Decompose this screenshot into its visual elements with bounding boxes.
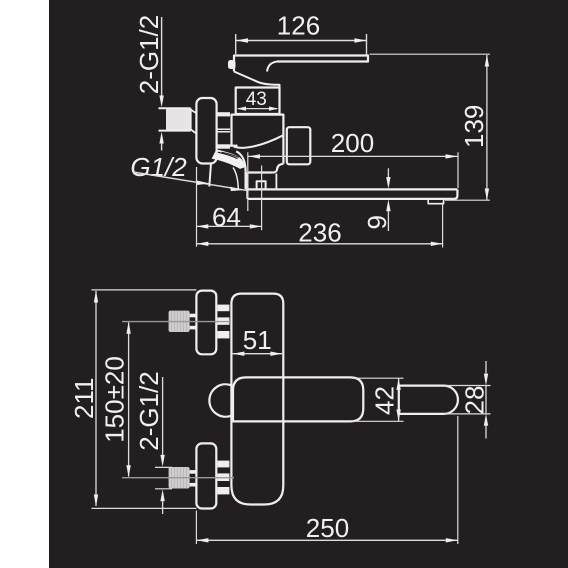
dimension 64 arrow left <box>197 224 209 228</box>
hex nut top facet (filled) <box>217 112 230 116</box>
handle front lip (filled) <box>228 60 236 69</box>
inlet fitting right edge <box>190 108 192 130</box>
dimension 42 extension bottom <box>352 420 404 422</box>
spout root white band (filled) <box>212 149 245 169</box>
upper inlet knurled knob <box>169 311 190 332</box>
dimension 43 arrow left <box>237 107 246 111</box>
lower inlet knurled knob <box>169 467 190 489</box>
dimension 126 extension left <box>235 34 237 54</box>
spout bottom edge and tip <box>247 189 457 199</box>
dimension 51 arrow right <box>270 352 282 356</box>
dimension 126 arrow left <box>236 38 248 43</box>
handle base cover <box>234 72 280 88</box>
lower wall escutcheon (front view) <box>196 443 216 508</box>
spout root outer bend <box>236 151 245 189</box>
dimension 236 line <box>197 243 443 245</box>
dimension 42 extension top <box>352 377 404 379</box>
body duct sculpt curve <box>234 135 284 148</box>
lower port thread tick bottom <box>155 488 172 490</box>
svg-text:43: 43 <box>246 89 267 110</box>
inlet flare top <box>191 110 197 114</box>
spout bracket top edge <box>247 171 272 173</box>
spout bracket left edge <box>246 173 248 199</box>
spout root tube inner edge <box>233 168 238 189</box>
dimension 2-G1/2 leader line <box>161 17 163 96</box>
svg-text:42: 42 <box>370 386 400 415</box>
handle bar (front view) <box>233 377 363 421</box>
dimension 2-G1/2 line (front view) <box>162 377 164 455</box>
dimension 200 line <box>248 155 457 157</box>
dimension 42 line <box>398 378 400 421</box>
dimension 9 arrow up <box>386 199 390 211</box>
spout top edge <box>247 188 457 190</box>
dimension 211 extension bottom <box>92 507 197 509</box>
mixer body (side view) <box>232 115 284 164</box>
dimension 28 extension top <box>444 385 491 387</box>
dimension 28 line lower <box>485 426 487 439</box>
G1/2 leader arrow 1 <box>196 180 209 185</box>
handle grip pill <box>399 386 458 414</box>
dimension 9 lower line <box>387 211 389 231</box>
dimension 2-G1/2 arrow up (front view) <box>160 489 164 501</box>
dimension 2-G1/2 arrow down <box>159 96 163 108</box>
svg-text:139: 139 <box>459 105 489 148</box>
upper wall escutcheon (front view) <box>196 291 216 355</box>
G1/2 leader line <box>133 172 248 191</box>
handle lever blade (side view) <box>234 56 368 72</box>
dimension 139 extension top <box>370 53 490 55</box>
spout root band streak 1 <box>218 152 238 158</box>
body bottom ledge <box>230 145 238 147</box>
svg-text:9: 9 <box>362 215 392 229</box>
cartridge housing box (43) <box>236 88 280 115</box>
dimension 42 arrow up <box>396 378 400 390</box>
inlet flare bottom <box>191 129 197 133</box>
dimension 200 extension right <box>457 152 459 188</box>
aerator insert <box>428 199 443 204</box>
svg-text:126: 126 <box>277 11 320 41</box>
dimension 211 arrow down <box>94 495 98 507</box>
dimension 200 arrow left <box>248 154 260 158</box>
dimension 250 extension right <box>457 416 459 544</box>
dimension 126 line <box>236 40 367 42</box>
dimension 250 extension left <box>195 511 197 545</box>
dimension 150±20 arrow down <box>126 465 130 477</box>
G1/2 leader arrow 2 <box>230 187 243 192</box>
dimension 2-G1/2 tail (front view) <box>162 501 164 514</box>
mixer body (front view) <box>231 294 283 505</box>
dimension 64 extension right <box>261 166 263 231</box>
dimension 51 line <box>233 353 283 355</box>
dimension 150±20 arrow up <box>126 322 130 334</box>
inlet fitting top edge / tick <box>159 107 191 109</box>
svg-text:250: 250 <box>306 513 349 543</box>
dimension 236 arrow right <box>431 242 443 246</box>
spout mounting notch <box>257 181 266 189</box>
dimension 250 arrow right <box>446 538 458 542</box>
dimension 139 arrow up <box>485 55 489 67</box>
svg-text:200: 200 <box>331 128 374 158</box>
dimension 139 arrow down <box>485 189 489 201</box>
wall escutcheon (side view) <box>196 98 216 164</box>
dimension 200 extension left <box>247 152 249 211</box>
hex nut bottom facet (filled) <box>217 144 230 148</box>
dimension 51 arrow left <box>233 352 245 356</box>
dimension 42 arrow down <box>396 410 400 422</box>
spout root band streak 2 <box>222 152 239 157</box>
svg-text:211: 211 <box>69 378 99 419</box>
dimension 250 arrow left <box>197 538 209 542</box>
upper knob collar <box>190 314 198 318</box>
dimension 150±20 line <box>128 323 130 477</box>
svg-text:236: 236 <box>298 218 341 248</box>
svg-text:150±20: 150±20 <box>100 356 130 443</box>
lower nipple ribs (filled) <box>217 461 229 468</box>
dimension 2-G1/2 arrow down (front view) <box>160 455 164 467</box>
inlet fitting bottom edge / tick <box>159 130 191 132</box>
dimension 250 line <box>197 539 458 541</box>
spout bracket divider <box>275 174 277 189</box>
outlet check-valve block <box>287 127 311 164</box>
dimension 126 extension right <box>366 34 368 55</box>
body foot S-curve <box>273 164 284 173</box>
dimension 64/236 extension left (wall plane) <box>196 167 198 247</box>
dimension 9 upper line <box>387 168 389 177</box>
lower port thread tick top <box>155 466 172 468</box>
upper nipple ribs (filled) <box>217 305 229 312</box>
dimension 28 arrow up <box>484 414 488 426</box>
dimension 28 arrow down <box>484 374 488 386</box>
handle finger hook curve <box>267 62 277 72</box>
dimension 28 mid line <box>485 386 487 414</box>
dimension 2-G1/2 arrow up <box>159 132 163 144</box>
dimension 43 line <box>238 108 277 110</box>
svg-text:2-G1/2: 2-G1/2 <box>134 15 164 95</box>
lower port centerline <box>122 477 234 479</box>
dimension 2-G1/2 lower tail <box>161 144 163 151</box>
dimension 139 extension bottom <box>445 199 490 201</box>
dimension 28 line upper <box>485 361 487 374</box>
dimension 211 arrow up <box>94 291 98 303</box>
dimension 200 arrow right <box>446 154 458 158</box>
dimension 139 line <box>486 55 488 200</box>
dimension 28 extension bottom <box>444 413 491 415</box>
svg-text:G1/2: G1/2 <box>130 152 187 182</box>
svg-text:64: 64 <box>212 202 241 232</box>
upper port centerline <box>122 321 231 323</box>
svg-text:2-G1/2: 2-G1/2 <box>134 371 164 451</box>
dimension 64 line <box>197 225 262 227</box>
lower knob collar <box>190 470 198 474</box>
dimension 64 arrow right <box>250 224 262 228</box>
dimension 236 arrow left <box>197 242 209 246</box>
spout root tube left edge <box>209 164 211 187</box>
hex nut mid facet lines <box>217 129 230 132</box>
cartridge dome (left bump) <box>209 384 231 416</box>
dimension 211 line <box>95 291 97 506</box>
inlet fitting (filled) <box>166 109 191 131</box>
dimension 126 arrow right <box>355 38 367 43</box>
dimension 43 arrow right <box>269 107 278 111</box>
svg-text:28: 28 <box>460 386 490 415</box>
left white margin strip <box>0 0 49 568</box>
dimension 211 extension top <box>92 289 197 291</box>
dimension 9 arrow down <box>386 177 390 189</box>
svg-text:51: 51 <box>243 325 272 355</box>
dimension 236 extension right <box>442 203 444 248</box>
